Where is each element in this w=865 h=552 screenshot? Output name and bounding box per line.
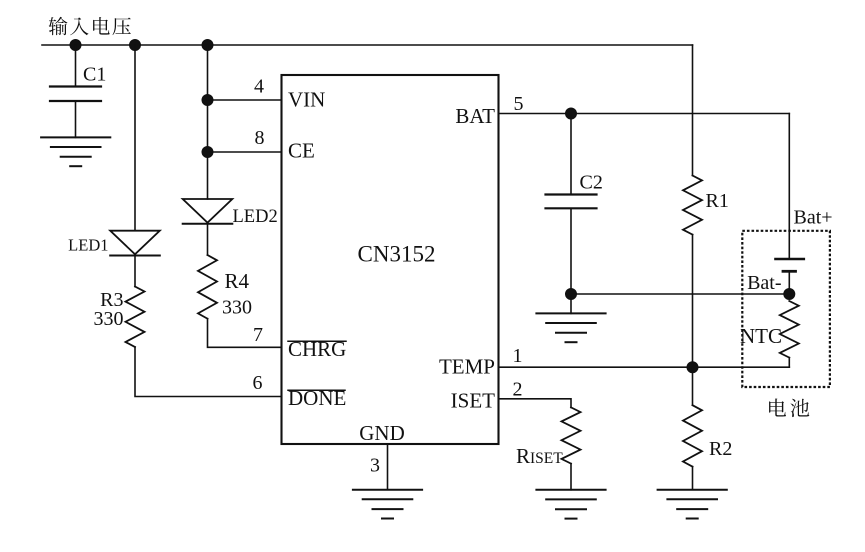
label 电池 (battery) bbox=[769, 399, 809, 418]
svg-text:VIN: VIN bbox=[288, 87, 325, 111]
node: BAT to C2 junction bbox=[566, 108, 577, 119]
label Bat+ bbox=[794, 207, 833, 229]
battery BT1 negative plate bbox=[783, 270, 796, 273]
svg-text:1: 1 bbox=[513, 345, 523, 367]
wire: NTC to TEMP line bbox=[788, 358, 790, 368]
wire: LED2 to R4 bbox=[207, 224, 209, 255]
wire: ISET pin 2 stub bbox=[499, 399, 572, 408]
svg-text:6: 6 bbox=[253, 372, 263, 394]
node: C2 ground junction bbox=[566, 289, 577, 300]
wire: top rail to C1 bbox=[75, 45, 77, 87]
wire: top rail down to R1 bbox=[692, 45, 694, 176]
svg-text:R2: R2 bbox=[709, 438, 732, 460]
label C2 bbox=[580, 172, 603, 194]
svg-text:Bat+: Bat+ bbox=[794, 207, 833, 229]
wire: VIN pin 4 stub bbox=[208, 99, 282, 101]
wire: GND pin 3 stub bbox=[387, 444, 389, 490]
wire: C2 to ground junction bbox=[570, 208, 572, 294]
svg-text:BAT: BAT bbox=[455, 104, 495, 128]
wire: CE pin 8 stub bbox=[208, 151, 282, 153]
pin ISET name bbox=[451, 388, 496, 412]
resistor R4 bbox=[198, 255, 217, 319]
svg-text:NTC: NTC bbox=[740, 324, 782, 348]
battery BT1 positive plate bbox=[776, 258, 804, 261]
label NTC bbox=[740, 324, 782, 348]
pin number 3 bbox=[370, 455, 380, 477]
capacitor C1 bbox=[50, 87, 101, 102]
pin DONE overbar bbox=[288, 389, 345, 391]
node: TEMP/R1/R2 junction bbox=[687, 362, 698, 373]
pin number 1 bbox=[513, 345, 523, 367]
pin number 2 bbox=[513, 379, 523, 401]
wire: ground junction to Bat- node bbox=[571, 293, 789, 295]
wire: BAT junction down to C2 bbox=[570, 114, 572, 195]
node: LED1 branch tap bbox=[130, 40, 141, 51]
pin TEMP name bbox=[439, 355, 495, 379]
wire: RISET to ground bbox=[570, 464, 572, 490]
svg-text:7: 7 bbox=[253, 324, 263, 346]
node: C1 tap on top rail bbox=[70, 40, 81, 51]
label Bat- bbox=[747, 272, 781, 294]
label R2 bbox=[709, 438, 732, 460]
svg-text:CE: CE bbox=[288, 139, 315, 163]
wire: LED1 to R3 bbox=[134, 255, 136, 286]
wire: BAT line down to battery + bbox=[788, 114, 790, 260]
label CN3152 bbox=[358, 242, 436, 267]
resistor R3 bbox=[126, 287, 145, 348]
svg-text:TEMP: TEMP bbox=[439, 355, 495, 379]
pin DONE name bbox=[288, 386, 346, 410]
label R3 bbox=[100, 289, 123, 311]
pin CHRG overbar bbox=[288, 340, 346, 342]
svg-text:LED2: LED2 bbox=[233, 207, 278, 227]
svg-text:2: 2 bbox=[513, 379, 523, 401]
ground: below GND pin bbox=[353, 490, 422, 519]
diode LED2 bbox=[183, 199, 233, 224]
svg-text:330: 330 bbox=[94, 308, 124, 330]
wire: R2 to ground bbox=[692, 467, 694, 490]
ground: below RISET bbox=[536, 490, 605, 519]
label R1 bbox=[706, 190, 729, 212]
diode LED1 bbox=[110, 231, 160, 256]
svg-text:330: 330 bbox=[222, 297, 252, 319]
pin number 5 bbox=[514, 93, 524, 115]
svg-text:R1: R1 bbox=[706, 190, 729, 212]
node: Bat- junction bbox=[784, 289, 795, 300]
svg-text:3: 3 bbox=[370, 455, 380, 477]
resistor R1 bbox=[683, 176, 702, 235]
wire: TEMP node down to R2 bbox=[692, 367, 694, 405]
op-amp/IC U1 CN3152 box bbox=[282, 75, 499, 444]
node: VIN pin tap bbox=[202, 95, 213, 106]
label R4 bbox=[225, 269, 250, 293]
resistor R2 bbox=[683, 405, 702, 466]
pin number 7 bbox=[253, 324, 263, 346]
wire: C1 to ground bbox=[75, 101, 77, 137]
svg-text:LED1: LED1 bbox=[68, 235, 108, 254]
label 输入电压 (input voltage) bbox=[49, 17, 131, 35]
svg-text:5: 5 bbox=[514, 93, 524, 115]
wire: top rail down to LED1 bbox=[134, 45, 136, 231]
pin number 6 bbox=[253, 372, 263, 394]
pin BAT name bbox=[455, 104, 495, 128]
svg-text:C1: C1 bbox=[83, 64, 106, 86]
wire: input voltage top rail bbox=[42, 44, 693, 46]
label C1 bbox=[83, 64, 106, 86]
pin VIN name bbox=[288, 87, 325, 111]
ground: below C2 bbox=[536, 313, 605, 342]
label LED2 bbox=[233, 207, 278, 227]
pin CE name bbox=[288, 139, 315, 163]
svg-text:4: 4 bbox=[254, 75, 264, 97]
svg-text:CHRG: CHRG bbox=[288, 337, 346, 361]
battery outline dashed box bbox=[742, 231, 830, 387]
pin CHRG name bbox=[288, 337, 346, 361]
svg-text:8: 8 bbox=[255, 127, 265, 149]
pin number 4 bbox=[254, 75, 264, 97]
ground: below R2 bbox=[658, 490, 727, 519]
node: VIN branch tap bbox=[202, 40, 213, 51]
svg-text:CN3152: CN3152 bbox=[358, 242, 436, 267]
resistor RISET bbox=[562, 407, 581, 463]
wire: R1 down to TEMP node bbox=[692, 235, 694, 368]
wire: TEMP pin 1 line bbox=[499, 366, 790, 368]
wire: R4 down and right to CHRG pin 7 bbox=[208, 319, 282, 348]
label LED1 bbox=[68, 235, 108, 254]
label R3 value 330 bbox=[94, 308, 124, 330]
svg-text:R4: R4 bbox=[225, 269, 250, 293]
svg-text:C2: C2 bbox=[580, 172, 603, 194]
wire: battery - to Bat- node bbox=[788, 271, 790, 294]
thermistor NTC bbox=[780, 301, 799, 358]
svg-text:ISET: ISET bbox=[451, 388, 496, 412]
svg-text:Bat-: Bat- bbox=[747, 272, 781, 294]
wire: BAT pin 5 line to battery bbox=[499, 113, 790, 115]
label R4 value 330 bbox=[222, 297, 252, 319]
pin number 8 bbox=[255, 127, 265, 149]
label RISET bbox=[516, 444, 563, 468]
node: CE pin tap bbox=[202, 147, 213, 158]
wire: R3 down and right to DONE pin 6 bbox=[135, 347, 282, 397]
capacitor C2 bbox=[546, 195, 597, 209]
wire: top rail down to LED2 bbox=[207, 45, 209, 199]
pin GND name bbox=[359, 421, 405, 445]
svg-text:GND: GND bbox=[359, 421, 405, 445]
wire: junction down to ground bbox=[570, 294, 572, 313]
ground: below C1 bbox=[41, 137, 110, 166]
